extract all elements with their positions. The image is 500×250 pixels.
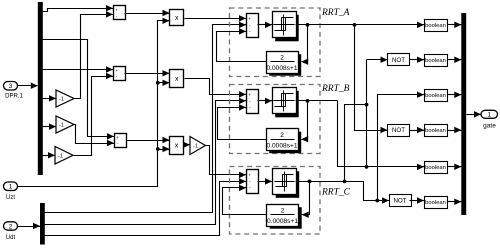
svg-text:x: x [175,15,179,22]
svg-text:2: 2 [280,132,284,139]
svg-text:gate: gate [483,123,496,130]
svg-text:+: + [115,8,118,13]
svg-text:-1: -1 [58,153,63,159]
svg-text:2: 2 [281,207,285,214]
svg-text:boolean: boolean [425,23,446,29]
svg-text:-1: -1 [59,97,64,103]
svg-text:-1: -1 [59,123,64,129]
svg-text:x: x [175,76,179,83]
svg-text:-1: -1 [193,144,198,150]
svg-text:NOT: NOT [392,57,405,64]
svg-text:boolean: boolean [425,128,446,134]
svg-text:0.0008s+1: 0.0008s+1 [267,218,298,225]
svg-text:DPR.1: DPR.1 [5,94,23,100]
svg-text:RRT_A: RRT_A [321,8,350,18]
svg-text:+: + [248,17,251,22]
svg-text:RRT_C: RRT_C [321,188,351,198]
svg-text:+: + [248,93,251,98]
svg-text:+: + [248,174,251,179]
svg-text:boolean: boolean [425,58,446,64]
svg-text:NOT: NOT [393,198,406,205]
svg-text:boolean: boolean [425,200,446,206]
svg-text:2: 2 [280,54,284,61]
svg-text:RRT_B: RRT_B [321,84,350,94]
svg-text:x: x [175,142,179,149]
svg-text:3: 3 [9,83,13,90]
svg-text:Uzt: Uzt [6,195,15,201]
svg-text:+: + [116,135,119,140]
svg-text:0.0008s+1: 0.0008s+1 [267,142,298,149]
svg-text:1: 1 [9,184,13,191]
svg-text:2: 2 [9,223,13,230]
svg-text:boolean: boolean [425,165,446,171]
svg-text:0.0008s+1: 0.0008s+1 [267,65,298,72]
svg-text:boolean: boolean [425,93,446,99]
svg-text:+: + [115,68,118,73]
svg-text:1: 1 [487,112,491,119]
svg-text:NOT: NOT [392,127,405,134]
svg-text:Udt: Udt [6,235,16,241]
